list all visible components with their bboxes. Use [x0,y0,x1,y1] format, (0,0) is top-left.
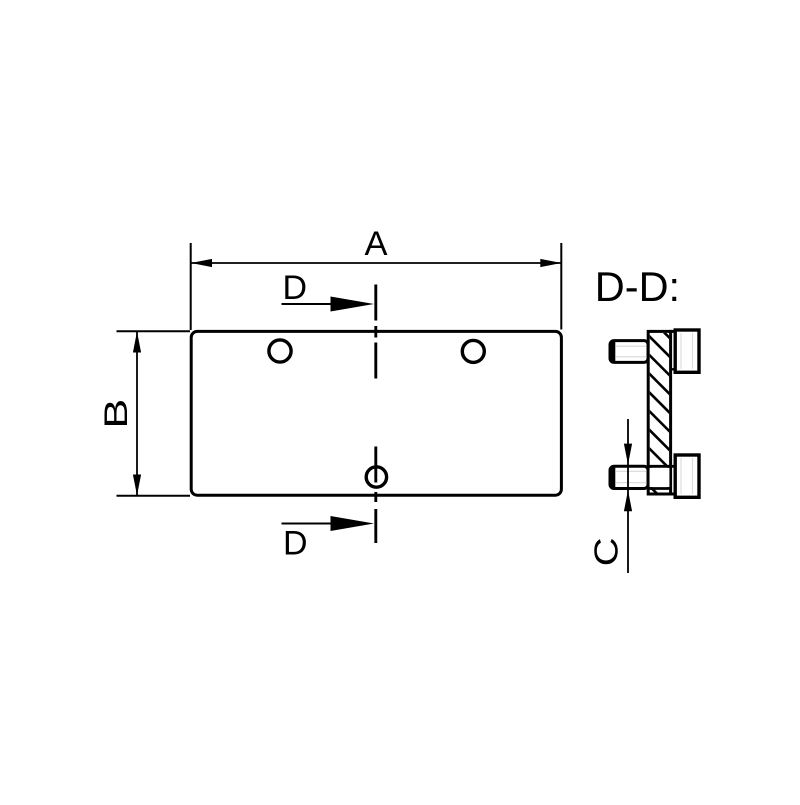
section centerline dashes [374,285,377,544]
plate outline (front view) [191,331,561,495]
section arrow D top head [331,297,375,312]
section arrow D top tail [282,303,341,305]
dimension line C [627,419,629,573]
arrowhead C down [624,444,632,465]
bottom plate edge stub to head [669,493,676,496]
bottom screw thread lines (faint) [616,470,646,472]
extension line B bottom [117,495,191,497]
top plate edge stub to head [669,330,675,333]
bottom shank through-plate top line [648,465,670,468]
dimension line B [136,332,138,496]
bottom neck stub [670,465,675,468]
section plate (hatched cross-section) [648,331,670,494]
bottom screw shank [610,466,648,488]
top neck stub [670,368,676,370]
svg-text:D: D [283,524,308,562]
top screw thread lines (faint) [616,345,646,347]
arrowhead A left [191,259,212,267]
arrowhead C up [624,490,632,511]
svg-text:B: B [98,399,134,429]
arrowhead B bottom [133,475,141,496]
hatching [645,313,675,511]
extension line A left [190,243,192,330]
svg-text:A: A [364,225,387,263]
svg-text:C: C [588,537,625,566]
bottom shank through-plate bottom line [648,487,670,490]
top screw shank cap bar [610,342,615,362]
svg-text:D: D [283,269,308,307]
hole top-right [462,340,484,362]
section arrow D bottom head [331,516,375,531]
arrowhead A right [540,259,561,267]
top head inner lines (faint) [680,333,682,369]
dimension line A [191,262,561,264]
bottom screw shank cap bar [610,467,615,487]
top screw shank [610,341,648,363]
extension line A right [560,243,562,330]
arrowhead B top [133,332,141,353]
hole top-left [269,340,291,362]
hole bottom-center [366,467,386,487]
bottom screw head [675,455,699,497]
extension line B top [117,330,191,332]
bottom screw hole band (white, interrupts hatch) [650,468,670,487]
top screw head [675,330,699,372]
section arrow D bottom tail [282,523,341,525]
svg-text:D-D:: D-D: [595,263,680,310]
bottom head inner lines (faint) [680,458,682,494]
